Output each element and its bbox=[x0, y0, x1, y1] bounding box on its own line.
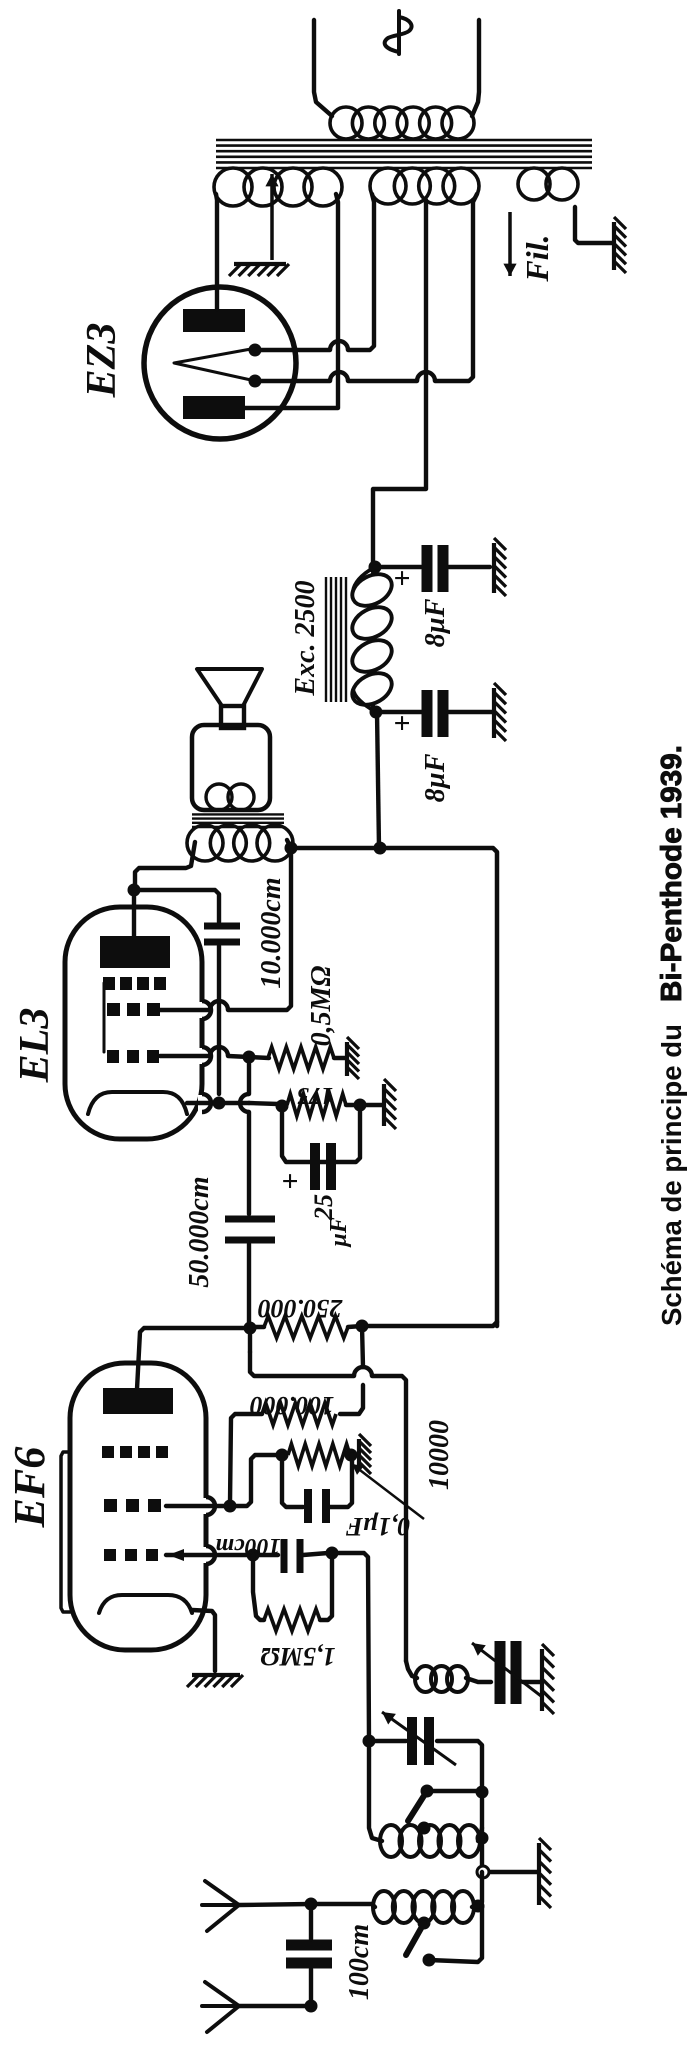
EF6 cathode bbox=[99, 1595, 192, 1613]
arrow CV2 variable bbox=[472, 1643, 541, 1696]
node EF6 anode N1 bbox=[244, 1322, 257, 1335]
svg-text:EZ3: EZ3 bbox=[79, 323, 125, 399]
switch S2 lever bbox=[406, 1923, 424, 1955]
wire EF6 cathode to ground bbox=[192, 1610, 215, 1671]
EF6 glass bump g1 bbox=[202, 1546, 215, 1564]
wire anode to C tone bbox=[134, 890, 219, 922]
label EL3 bbox=[12, 1008, 58, 1084]
svg-text:8µF: 8µF bbox=[420, 753, 451, 802]
resistor 10000 screen bleed bbox=[288, 1444, 350, 1466]
node switch S1 contact bbox=[476, 1786, 489, 1799]
capacitor 25uF plate 1 bbox=[310, 1143, 320, 1190]
capacitor 25uF plate 2 bbox=[326, 1143, 336, 1190]
wire S1 to S2 bbox=[230, 1455, 278, 1506]
node grid G1b bbox=[326, 1547, 339, 1560]
antenna symbol A1 bbox=[202, 1881, 239, 1931]
node screen S1 bbox=[224, 1500, 237, 1513]
transformer T1 HT secondary winding bbox=[214, 168, 342, 206]
node L2 bottom bbox=[476, 1832, 489, 1845]
arrow CV1 variable bbox=[382, 1712, 456, 1765]
wire primary lead bottom bbox=[472, 20, 479, 116]
svg-text:Bi-Penthode 1939.: Bi-Penthode 1939. bbox=[656, 745, 688, 1002]
resistor 1,5MOhm grid leak bbox=[264, 1609, 320, 1631]
label 8uF b bbox=[420, 753, 451, 802]
resistor 100.000 screen feed bbox=[262, 1403, 336, 1425]
wire N1 left bbox=[248, 1328, 252, 1352]
node antenna junction bbox=[305, 1898, 318, 1911]
wire B+ rail bbox=[380, 848, 497, 1326]
label uF bbox=[326, 1217, 352, 1248]
label 250.000 bbox=[258, 1294, 344, 1323]
wire anode node to EL3 top cap bbox=[132, 890, 136, 936]
ground C8b bbox=[494, 683, 506, 741]
wire filament pin1 to filament winding top bbox=[348, 194, 374, 350]
transformer T1 core bbox=[216, 140, 592, 168]
speaker horn bbox=[197, 669, 262, 706]
leader line 10000 bbox=[352, 1464, 424, 1519]
capacitor C8a plate 2 bbox=[438, 545, 449, 592]
node 10000 bottom bbox=[345, 1449, 358, 1462]
wire EF6 g2 exit bbox=[166, 1504, 226, 1508]
EL3 grid g1 dashes bbox=[107, 1050, 159, 1063]
node EZ3 filament pin 1 bbox=[249, 344, 262, 357]
svg-text:1,5MΩ: 1,5MΩ bbox=[260, 1642, 335, 1671]
svg-text:Schéma de principe du: Schéma de principe du bbox=[656, 1024, 687, 1326]
wire A2 to 100cm cap bbox=[309, 1969, 313, 2006]
variable capacitor CV2 plate 1 bbox=[495, 1641, 506, 1704]
wire choke end right bbox=[373, 567, 375, 574]
wire N1 to 250k bbox=[250, 1325, 264, 1329]
node choke output bbox=[370, 706, 383, 719]
wire C8b to ground bbox=[449, 710, 492, 714]
svg-text:25: 25 bbox=[309, 1194, 338, 1221]
wire primary lead top bbox=[314, 20, 332, 116]
wire choke input to C8a bbox=[375, 565, 421, 569]
wire S2 to 0,1uF bbox=[282, 1455, 303, 1507]
node tuner top T1 bbox=[363, 1735, 376, 1748]
wire to ground bbox=[360, 1103, 382, 1107]
wire to 100k bbox=[340, 1385, 363, 1414]
EZ3 anode plate right bbox=[183, 309, 245, 332]
reaction coil L4 bbox=[415, 1666, 468, 1692]
label 8uF a bbox=[420, 598, 451, 647]
wire C tone to cathode node bbox=[217, 946, 221, 1094]
wire N2 to B+ rail bbox=[362, 1322, 497, 1326]
node cathode / tone cap junction bbox=[213, 1097, 226, 1110]
wire heater lead with arrow Fil. bbox=[503, 212, 516, 276]
tuning coil L2 bbox=[380, 1825, 480, 1857]
label plus C8b bbox=[386, 714, 419, 731]
wire T1 to tuning cap bbox=[369, 1739, 406, 1743]
wire EZ3 filament pin2 down bbox=[255, 379, 330, 383]
svg-text:100cm: 100cm bbox=[344, 1924, 375, 2000]
label 0,5MOhm bbox=[306, 966, 337, 1047]
wire 175 to node bbox=[346, 1103, 360, 1107]
wire EL3 g1 to node bbox=[228, 1056, 249, 1057]
label EF6 bbox=[5, 1447, 54, 1529]
wire grid to tuner bbox=[332, 1553, 369, 1741]
wire hop over 100k feed bbox=[354, 1367, 372, 1376]
wire L4 to trimmer bbox=[466, 1678, 491, 1682]
label 100cm grid bbox=[215, 1533, 280, 1559]
ground heater winding bbox=[614, 217, 626, 273]
wire EZ3 left plate to HT winding bottom bbox=[245, 194, 338, 408]
choke Exc.2500 winding bbox=[347, 567, 397, 712]
EZ3 anode plate left bbox=[183, 396, 245, 419]
node S2 bbox=[276, 1449, 289, 1462]
wire choke end left bbox=[373, 706, 376, 712]
wire B+ from rectifier filament center tap to choke bbox=[373, 200, 426, 562]
caption text bbox=[656, 745, 688, 1326]
EL3 anode plate bbox=[100, 936, 170, 968]
svg-text:250.000: 250.000 bbox=[258, 1294, 344, 1323]
switch S1 lever bbox=[408, 1791, 427, 1821]
wire G1a to 1,5M bbox=[253, 1555, 264, 1620]
EF6 grid g2 dashes bbox=[104, 1499, 161, 1512]
capacitor 0,1uF plate 2 bbox=[322, 1489, 330, 1523]
capacitor 10.000cm plate 1 bbox=[204, 923, 240, 930]
svg-text:+: + bbox=[386, 714, 419, 731]
node grid G1a bbox=[247, 1549, 260, 1562]
svg-text:8µF: 8µF bbox=[420, 598, 451, 647]
wire g1 to 100cm cap bbox=[253, 1553, 278, 1557]
variable capacitor CV1 plate 1 bbox=[407, 1717, 417, 1765]
wire S2 contact row bbox=[429, 1906, 482, 1962]
svg-text:+: + bbox=[274, 1172, 307, 1189]
wire coupling cap to EF6 anode node bbox=[247, 1244, 251, 1328]
node L3 bottom bbox=[472, 1900, 485, 1913]
AC mains symbol bbox=[385, 11, 412, 54]
node cathode bias bottom bbox=[354, 1099, 367, 1112]
capacitor 100cm grid plate 2 bbox=[297, 1539, 304, 1573]
wire grid toward coupling cap bbox=[247, 1057, 251, 1094]
node choke input bbox=[369, 561, 382, 574]
rectifier tube EZ3 envelope bbox=[144, 287, 296, 439]
capacitor 10.000cm plate 2 bbox=[204, 939, 240, 946]
EL3 cathode bbox=[88, 1092, 187, 1114]
node cathode bias top bbox=[276, 1100, 289, 1113]
capacitor 0,1uF plate 1 bbox=[304, 1489, 312, 1523]
svg-text:EL3: EL3 bbox=[12, 1008, 58, 1084]
wire S1 pivot stub bbox=[427, 1789, 478, 1793]
speaker voice coil bbox=[206, 784, 254, 810]
EF6 grid g1 dashes bbox=[104, 1549, 158, 1561]
wire L3 end bbox=[472, 1906, 478, 1907]
wire EL3 g2 to B+ node bbox=[228, 848, 291, 1010]
wire choke output to B+ node bbox=[377, 712, 379, 848]
wire EZ3 filament pin1 down bbox=[255, 348, 330, 352]
pentode EF6 envelope bbox=[70, 1363, 206, 1650]
speaker body bbox=[192, 725, 270, 810]
label 1,5M bbox=[260, 1642, 335, 1671]
transformer T1 primary winding bbox=[330, 107, 474, 139]
wire heater winding to ground bbox=[575, 207, 612, 243]
EL3 glass bump g1 bbox=[198, 1047, 211, 1065]
wire EZ3 right plate to HT winding top bbox=[216, 194, 217, 309]
ground C8a bbox=[494, 538, 506, 596]
capacitor C8a plate 1 bbox=[422, 545, 433, 592]
antenna coil L3 bbox=[373, 1891, 474, 1923]
wire J1 up to output transformer bbox=[291, 846, 380, 850]
node EZ3 filament pin 2 bbox=[249, 375, 262, 388]
svg-text:50.000cm: 50.000cm bbox=[184, 1176, 215, 1287]
resistor 0,5MOhm grid leak bbox=[268, 1047, 334, 1069]
label Exc. 2500 bbox=[290, 580, 321, 696]
EL3 glass bump cathode bbox=[198, 1094, 211, 1112]
wire to ground 10000 bbox=[351, 1453, 358, 1457]
wire T1 to L2 top bbox=[369, 1741, 382, 1841]
wire 250k to N2 bbox=[348, 1326, 362, 1327]
wire hop g1 over tone cap wire bbox=[210, 1047, 228, 1056]
wire to coupling cap bbox=[247, 1112, 251, 1214]
wire filament pin2 middle bbox=[348, 379, 417, 383]
wire filament pin2 to filament winding bottom bbox=[435, 194, 477, 381]
variable capacitor CV2 plate 2 bbox=[511, 1641, 522, 1704]
wire 100k to screen node bbox=[230, 1414, 262, 1503]
EF6 glass bump g2 bbox=[202, 1497, 215, 1515]
EZ3 filament bbox=[174, 349, 251, 380]
wire CV2 to ground bbox=[523, 1680, 540, 1684]
ground CV2 bbox=[542, 1644, 554, 1714]
wire hop over plate wire 2 bbox=[330, 372, 348, 381]
label Fil. bbox=[519, 234, 555, 282]
wire anode line into L4 bbox=[406, 1661, 417, 1678]
antenna symbol A2 bbox=[202, 1982, 239, 2032]
EL3 internal g3 tie bbox=[103, 983, 106, 1052]
svg-text:EF6: EF6 bbox=[5, 1447, 54, 1529]
label EZ3 bbox=[79, 323, 125, 399]
arrowhead on g1 wire bbox=[168, 1549, 184, 1561]
label 100cm antenna bbox=[344, 1924, 375, 2000]
resistor 250.000 anode load bbox=[264, 1316, 348, 1338]
label plus C8a bbox=[386, 569, 419, 586]
label 10.000cm bbox=[256, 877, 287, 988]
svg-text:175: 175 bbox=[297, 1082, 333, 1108]
node switch S2 contact bbox=[423, 1954, 436, 1967]
capacitor 100cm antenna plate 2 bbox=[286, 1940, 332, 1951]
wire 1,5M to G1b bbox=[320, 1553, 332, 1620]
ground 10000 bbox=[359, 1434, 371, 1474]
wire antenna A2 down bbox=[239, 2004, 311, 2008]
wire grid dot to 0,5M bbox=[249, 1057, 269, 1058]
label 25 bbox=[309, 1194, 338, 1221]
transformer T1 heater winding Fil. bbox=[518, 168, 578, 200]
wire choke output to C8b bbox=[376, 710, 422, 714]
wire cap to G1b bbox=[303, 1553, 328, 1555]
wire switch row bbox=[480, 1792, 484, 1872]
wire C8a to ground bbox=[449, 565, 490, 569]
node EL3 grid bbox=[243, 1051, 256, 1064]
output tube EL3 envelope bbox=[65, 907, 202, 1139]
svg-text:Exc. 2500: Exc. 2500 bbox=[290, 580, 321, 696]
wire hop g2 over tone cap wire bbox=[210, 1001, 228, 1010]
label 0,1uF bbox=[346, 1512, 411, 1541]
output transformer primary winding bbox=[187, 825, 293, 861]
wire 25uF bypass loop bbox=[282, 1105, 360, 1162]
ground HT center tap bbox=[229, 264, 289, 276]
svg-text:0,1µF: 0,1µF bbox=[346, 1512, 411, 1541]
wire EL3 g2 exit bbox=[160, 1008, 210, 1012]
EF6 metal shell bracket bbox=[61, 1452, 70, 1612]
capacitor 100cm antenna plate 1 bbox=[286, 1958, 332, 1969]
wire circle to ground bbox=[490, 1870, 537, 1874]
wire CV1 to switch line bbox=[437, 1741, 482, 1786]
wire N1 to EF6 top cap bbox=[137, 1328, 250, 1389]
svg-text:Fil.: Fil. bbox=[519, 234, 555, 282]
node B+ junction J1 bbox=[374, 842, 387, 855]
wire cathode down bbox=[249, 1103, 278, 1104]
svg-text:10.000cm: 10.000cm bbox=[256, 877, 287, 988]
capacitor 100cm grid plate 1 bbox=[281, 1539, 288, 1573]
node screen feed junction bbox=[285, 842, 298, 855]
wire HT center tap with arrow bbox=[265, 174, 278, 260]
wire primary bottom to B+ node bbox=[287, 840, 291, 848]
capacitor C8b plate 1 bbox=[422, 690, 433, 737]
svg-text:100.000: 100.000 bbox=[250, 1391, 335, 1420]
node EL3 anode junction bbox=[128, 884, 141, 897]
wire antenna A1 down bbox=[239, 1904, 311, 1905]
ground tuner bbox=[539, 1838, 551, 1908]
node A2 junction bbox=[305, 2000, 318, 2013]
svg-text:+: + bbox=[386, 569, 419, 586]
transformer T1 rectifier filament winding bbox=[370, 168, 479, 204]
svg-text:µF: µF bbox=[326, 1217, 352, 1248]
wire hop over plate wire bbox=[330, 341, 348, 350]
wire hop over B+ wire bbox=[417, 372, 435, 381]
svg-text:10000: 10000 bbox=[424, 1420, 455, 1490]
EF6 anode plate bbox=[103, 1388, 173, 1414]
label 100.000 bbox=[250, 1391, 335, 1420]
wire 0,1uF to 10000 bottom bbox=[330, 1455, 352, 1507]
capacitor 50.000cm plate 1 bbox=[225, 1216, 275, 1223]
wire L3 top to antenna node bbox=[311, 1904, 375, 1907]
ground EF6 cathode bbox=[187, 1675, 243, 1687]
node N2 bbox=[356, 1320, 369, 1333]
capacitor C8b plate 2 bbox=[438, 690, 449, 737]
terminal chassis circle bbox=[477, 1866, 489, 1878]
label 50.000cm bbox=[184, 1176, 215, 1287]
wire to reaction line bbox=[250, 1352, 354, 1376]
variable capacitor CV1 plate 2 bbox=[424, 1717, 434, 1765]
ground cathode bbox=[384, 1079, 396, 1129]
label 175 bbox=[297, 1082, 333, 1108]
wire hop coupling over cathode wire bbox=[240, 1094, 249, 1112]
wire cap to A1 node bbox=[309, 1904, 313, 1939]
wire EL3 g1 exit bbox=[160, 1054, 210, 1058]
svg-text:100cm: 100cm bbox=[215, 1533, 280, 1559]
wire 0,5M to ground bbox=[334, 1056, 345, 1060]
output transformer core bbox=[192, 814, 284, 827]
wire N2 left bbox=[362, 1326, 363, 1367]
ground 0,5M bbox=[347, 1037, 359, 1079]
EL3 grid g2 dashes bbox=[107, 1003, 160, 1016]
resistor 175 cathode bias bbox=[287, 1094, 346, 1116]
node switch S1 pivot bbox=[421, 1785, 434, 1798]
node L2 tap bbox=[418, 1822, 431, 1835]
node L3 tap switch pivot bbox=[418, 1917, 431, 1930]
wire EL3 cathode exit bbox=[187, 1101, 249, 1105]
capacitor 50.000cm plate 2 bbox=[225, 1237, 275, 1244]
wire L2 bottom bbox=[478, 1828, 482, 1841]
label plus 25uF bbox=[274, 1172, 307, 1189]
speaker horn neck bbox=[221, 706, 244, 728]
label 10000 bbox=[424, 1420, 455, 1490]
choke Exc.2500 core bbox=[326, 577, 346, 702]
EL3 glass bump g2 bbox=[198, 1001, 211, 1019]
EF6 grid g3 dashes bbox=[102, 1446, 168, 1458]
wire to L3 bbox=[480, 1872, 482, 1906]
wire anode to reaction coil bbox=[372, 1376, 406, 1661]
EL3 grid g3 dashes bbox=[103, 977, 166, 990]
svg-text:0,5MΩ: 0,5MΩ bbox=[306, 966, 337, 1047]
wire EF6 g1 exit bbox=[166, 1553, 249, 1557]
wire primary top to EL3 anode bbox=[135, 842, 195, 890]
